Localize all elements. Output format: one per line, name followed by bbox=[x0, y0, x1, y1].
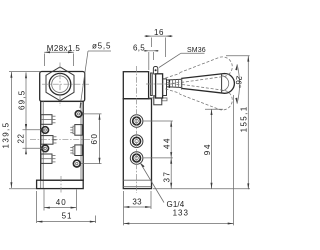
pivot block bbox=[153, 67, 157, 75]
actuator plate A bbox=[151, 73, 153, 96]
swing arc 26deg bbox=[233, 64, 243, 103]
thread outer circle bbox=[49, 73, 71, 95]
dim 44 bbox=[144, 121, 173, 158]
svg-text:37: 37 bbox=[163, 171, 172, 183]
left port circle 2 bbox=[42, 145, 49, 152]
dim 139,5 bbox=[2, 72, 36, 189]
body center line bottom vertical bbox=[60, 176, 62, 193]
actuator stem bbox=[152, 74, 155, 96]
dim 6,5 bbox=[133, 44, 159, 70]
actuator washer bbox=[163, 79, 167, 96]
port 1 bbox=[130, 115, 143, 128]
port 3 bbox=[130, 152, 143, 165]
center line vertical hex bbox=[59, 63, 61, 107]
svg-text:40: 40 bbox=[56, 198, 67, 207]
right plug 2 bbox=[70, 145, 82, 156]
body center line horizontal bbox=[30, 138, 93, 140]
mount hole bottom bbox=[73, 160, 80, 167]
actuator boss bbox=[154, 96, 162, 105]
body bbox=[123, 99, 151, 189]
pivot dot bbox=[155, 69, 157, 71]
svg-text:44: 44 bbox=[163, 137, 172, 149]
label G1/4 bbox=[140, 163, 185, 209]
actuator nut SM36 bbox=[156, 74, 163, 98]
upper block bbox=[123, 72, 148, 99]
svg-text:51: 51 bbox=[62, 212, 73, 221]
dashed lever upper position bbox=[164, 55, 235, 91]
svg-text:155,1: 155,1 bbox=[239, 105, 248, 132]
port 2 bbox=[130, 135, 143, 148]
label SM36 bbox=[159, 47, 206, 67]
svg-text:94: 94 bbox=[203, 143, 212, 156]
hex nut bbox=[46, 67, 74, 101]
label Ø5,5 bbox=[80, 42, 111, 109]
dim 33 bbox=[124, 191, 152, 225]
dim 60 bbox=[81, 114, 102, 164]
port axis center line bbox=[136, 66, 138, 193]
mount hole top (Ø5,5) bbox=[75, 111, 81, 117]
body inner line right bbox=[80, 101, 82, 180]
svg-text:16: 16 bbox=[154, 28, 164, 37]
svg-text:69,5: 69,5 bbox=[18, 90, 27, 110]
body inner line left bbox=[42, 101, 44, 188]
left fitting rect 2 bbox=[41, 136, 57, 145]
base line bbox=[123, 179, 151, 181]
svg-text:22: 22 bbox=[16, 133, 25, 143]
dim 133 bbox=[124, 95, 234, 225]
base line 2 bbox=[123, 186, 151, 188]
base plate bbox=[37, 180, 84, 188]
main body bbox=[41, 101, 83, 180]
svg-text:6,5: 6,5 bbox=[133, 44, 145, 53]
left fitting rect 1 bbox=[41, 115, 56, 125]
body edge through base bbox=[40, 180, 42, 188]
top plate bbox=[40, 72, 85, 102]
dashed lever lower position bbox=[164, 76, 235, 112]
top extension line bbox=[9, 71, 40, 73]
mount step block bbox=[162, 98, 167, 101]
svg-text:133: 133 bbox=[173, 208, 189, 217]
thread inner circle bbox=[52, 76, 69, 93]
lever axis center line bbox=[146, 83, 172, 85]
lever rod bbox=[167, 79, 182, 88]
svg-text:60: 60 bbox=[90, 133, 99, 145]
dim 51 bbox=[37, 191, 96, 223]
svg-text:26°: 26° bbox=[233, 75, 243, 88]
svg-text:G1/4: G1/4 bbox=[167, 200, 185, 209]
svg-text:M28x1.5: M28x1.5 bbox=[47, 44, 81, 53]
dim 40 bbox=[44, 190, 76, 211]
dim 155,1 bbox=[153, 56, 250, 189]
dim 94 bbox=[203, 109, 223, 188]
dim M28x1.5 bbox=[44, 44, 80, 66]
lever handle cone bbox=[182, 74, 235, 94]
dim 37 bbox=[163, 158, 173, 189]
center line horizontal hex bbox=[42, 83, 89, 85]
svg-text:ø5,5: ø5,5 bbox=[92, 42, 111, 51]
svg-text:33: 33 bbox=[132, 197, 142, 206]
left fitting rect 3 bbox=[41, 154, 56, 163]
dim 22 bbox=[16, 124, 44, 155]
dim 16 bbox=[144, 28, 172, 57]
svg-text:139,5: 139,5 bbox=[2, 121, 11, 148]
right plug 1 bbox=[70, 125, 82, 136]
dim 69,5 bbox=[18, 72, 28, 129]
mount plate line bbox=[149, 97, 167, 99]
left port circle 1 bbox=[42, 127, 49, 134]
